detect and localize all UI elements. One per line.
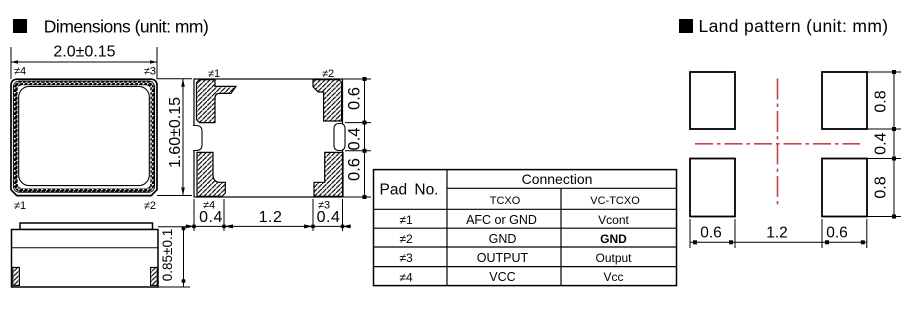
side view right pad: [151, 267, 158, 285]
svg-text:Vcc: Vcc: [603, 270, 623, 284]
side view body: [12, 230, 159, 288]
svg-text:Connection: Connection: [522, 171, 593, 187]
svg-text:≠4: ≠4: [399, 271, 413, 285]
svg-text:0.4: 0.4: [346, 128, 364, 151]
svg-text:1.2: 1.2: [259, 209, 283, 226]
svg-text:Dimensions (unit: mm): Dimensions (unit: mm): [44, 16, 209, 36]
bottom view pad #2: [313, 80, 342, 121]
svg-text:OUTPUT: OUTPUT: [477, 251, 529, 265]
svg-text:≠2: ≠2: [144, 200, 156, 212]
connection table grid: [374, 170, 677, 286]
table header Pad No.: [379, 182, 438, 199]
bottom view package outline: [194, 79, 343, 197]
svg-text:0.8: 0.8: [873, 176, 890, 198]
svg-text:0.4: 0.4: [873, 132, 890, 154]
land pattern pad top-right: [822, 72, 867, 129]
svg-text:1.2: 1.2: [766, 225, 788, 242]
bottom view pad #1: [197, 80, 237, 123]
top view pad label #2: [144, 200, 156, 212]
dimension 1.60±0.15: [157, 79, 192, 196]
bottom view right castellation notch: [334, 124, 345, 151]
table row 3: [399, 251, 632, 265]
svg-text:≠2: ≠2: [399, 232, 413, 246]
svg-text:VCC: VCC: [489, 270, 515, 284]
bottom view vertical dimension 0.6 / 0.4 / 0.6: [343, 77, 372, 199]
table row 2: [399, 232, 627, 246]
svg-text:0.6: 0.6: [826, 225, 848, 242]
dimension 2.0±0.15: [11, 44, 157, 80]
svg-text:GND: GND: [489, 232, 517, 246]
side view left pad: [13, 267, 20, 285]
land pattern vertical dimension 0.8 / 0.4 / 0.8: [867, 70, 901, 219]
top view package outline: [11, 79, 157, 195]
bottom view pad label #1: [208, 68, 220, 80]
dimension 0.85±0.1: [158, 227, 190, 288]
bottom view pad label #3: [318, 200, 330, 212]
svg-text:VC-TCXO: VC-TCXO: [590, 195, 640, 207]
svg-text:0.85±0.1: 0.85±0.1: [160, 229, 175, 281]
svg-text:≠3: ≠3: [399, 251, 413, 265]
svg-text:Land pattern (unit: mm): Land pattern (unit: mm): [699, 16, 889, 36]
table header TCXO: [490, 195, 521, 207]
top view pad label #4: [14, 66, 26, 78]
svg-text:1.60±0.15: 1.60±0.15: [167, 97, 184, 168]
bottom view left castellation notch: [193, 126, 202, 151]
side view lid: [20, 223, 153, 230]
land pattern pad bottom-left: [690, 159, 735, 217]
top view pad label #3: [144, 66, 156, 78]
bottom view pad label #2: [322, 68, 334, 80]
svg-text:0.6: 0.6: [700, 225, 722, 242]
table row 1: [399, 213, 629, 227]
table row 4: [399, 270, 623, 285]
svg-text:0.6: 0.6: [346, 87, 364, 110]
svg-text:≠1: ≠1: [14, 200, 26, 212]
svg-text:GND: GND: [600, 232, 627, 246]
top view pad label #1: [14, 200, 26, 212]
land pattern pad bottom-right: [822, 159, 867, 217]
svg-text:≠1: ≠1: [399, 213, 413, 227]
bottom view pad #3: [314, 152, 343, 196]
land pattern horizontal centerline: [695, 143, 860, 145]
table header VC-TCXO: [590, 195, 640, 207]
land pattern horizontal dimension 0.6 / 1.2 / 0.6: [690, 219, 867, 248]
svg-text:≠1: ≠1: [208, 68, 220, 80]
svg-text:TCXO: TCXO: [490, 195, 521, 207]
svg-text:Pad No.: Pad No.: [379, 182, 438, 199]
svg-text:0.8: 0.8: [873, 90, 890, 112]
svg-text:≠4: ≠4: [14, 66, 26, 78]
svg-text:0.4: 0.4: [199, 209, 223, 226]
bottom view horizontal dimension 0.4 / 1.2 / 0.4: [185, 199, 351, 231]
svg-text:Vcont: Vcont: [598, 213, 629, 227]
bottom view pad #4: [197, 152, 225, 196]
svg-text:0.4: 0.4: [317, 209, 341, 226]
section title: Dimensions: [13, 16, 208, 36]
section title: Land pattern: [679, 16, 888, 36]
table header Connection: [522, 171, 593, 187]
bottom view pad label #4: [203, 200, 215, 212]
svg-text:0.6: 0.6: [346, 158, 364, 181]
svg-text:≠3: ≠3: [144, 66, 156, 78]
svg-text:Output: Output: [595, 251, 632, 265]
svg-text:≠2: ≠2: [322, 68, 334, 80]
land pattern vertical centerline: [777, 79, 779, 207]
svg-text:AFC or GND: AFC or GND: [466, 213, 537, 227]
land pattern pad top-left: [690, 72, 735, 129]
svg-text:2.0±0.15: 2.0±0.15: [53, 44, 115, 61]
